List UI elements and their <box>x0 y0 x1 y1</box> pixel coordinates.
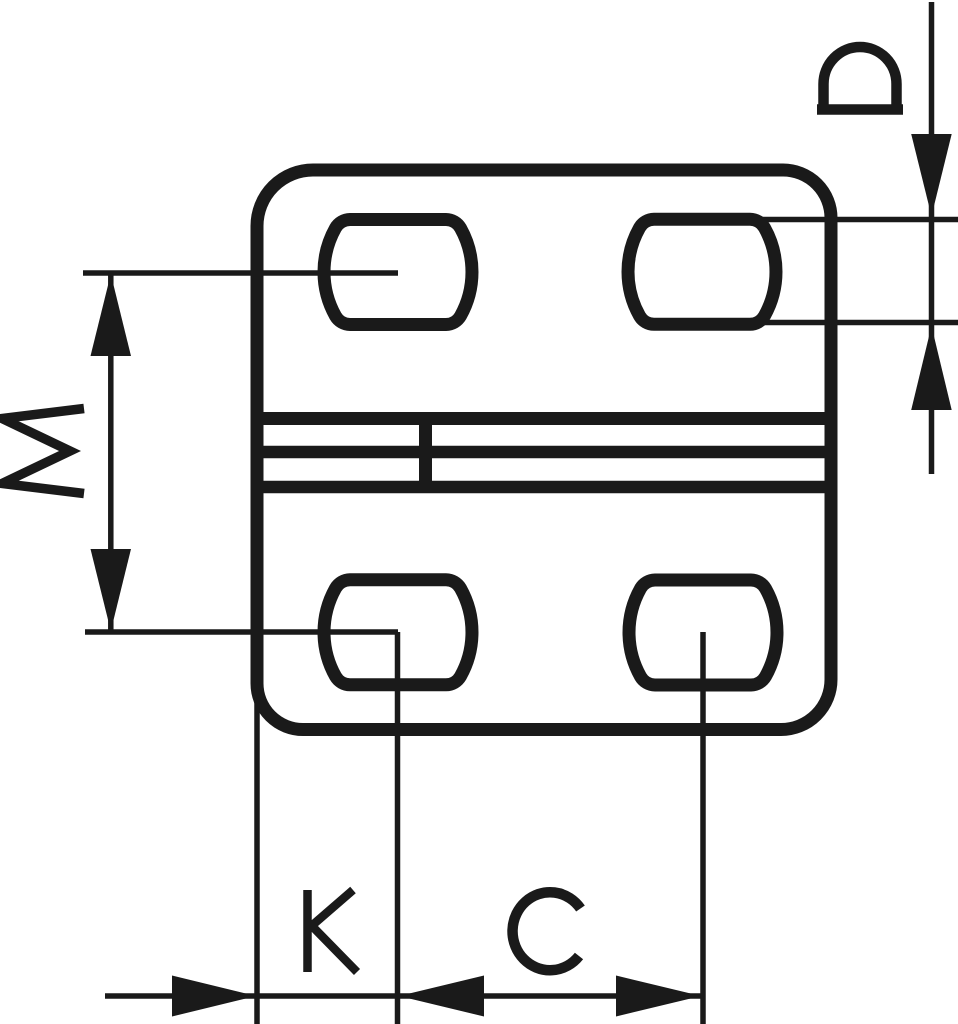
label C (drawn as open arc) <box>513 892 581 970</box>
extension line M top (to centre of top-left slot) <box>83 270 398 276</box>
arrowhead D top (pointing down) <box>911 134 952 216</box>
slot hole top-right <box>628 219 776 324</box>
extension line 3 (centre of bottom-right slot, down) <box>700 632 706 1024</box>
hinge line A (upper full-width line) <box>255 412 833 425</box>
arrowhead C right (pointing right) <box>616 976 701 1017</box>
slot hole top-left <box>324 220 472 325</box>
label M (rotated letter drawn as strokes) <box>2 409 84 494</box>
part outline (rounded square body) <box>257 170 831 730</box>
extension line D bottom (from bottom of top-right slot) <box>758 320 958 326</box>
extension line 1 (left edge of part, down) <box>254 695 260 1024</box>
label D (rotated letter: flat bar + dome) <box>817 47 903 109</box>
dimension line K / C (horizontal, bottom) <box>105 993 704 999</box>
extension line 2 (centre of bottom-left slot, down) <box>395 632 401 1024</box>
dimension line D (vertical, right side) <box>929 2 935 474</box>
hinge line B (middle full-width line) <box>255 446 833 459</box>
arrowhead M top (pointing up) <box>91 274 132 356</box>
extension line M bottom (to centre of bottom-left slot) <box>85 629 398 635</box>
arrowhead D bottom (pointing up) <box>911 326 952 410</box>
arrowhead K (pointing right, outside) <box>172 976 256 1017</box>
hinge knuckle vertical bar <box>419 415 432 490</box>
arrowhead M bottom (pointing down) <box>91 549 132 631</box>
slot hole bottom-right <box>629 580 777 685</box>
label K (drawn as strokes) <box>308 890 358 972</box>
arrowhead C left (pointing left) <box>399 976 484 1017</box>
dimension line M (vertical) <box>108 273 114 631</box>
hinge line C (lower full-width line) <box>255 481 833 494</box>
slot hole bottom-left <box>324 580 472 685</box>
extension line D top (from top of top-right slot) <box>755 217 958 223</box>
